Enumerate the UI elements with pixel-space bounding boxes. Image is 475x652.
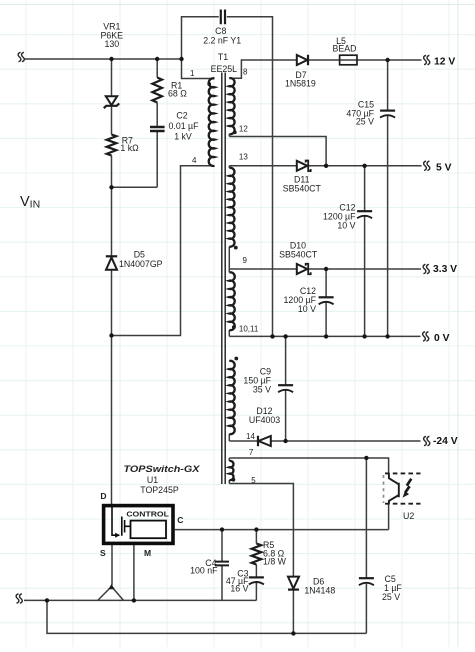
svg-text:U1: U1: [147, 475, 158, 485]
svg-text:10 V: 10 V: [298, 304, 316, 314]
svg-text:U2: U2: [403, 511, 414, 521]
svg-text:2.2 nF Y1: 2.2 nF Y1: [203, 36, 241, 46]
svg-text:68 Ω: 68 Ω: [168, 89, 187, 99]
svg-text:1 kΩ: 1 kΩ: [120, 143, 139, 153]
svg-text:8: 8: [243, 68, 248, 77]
svg-text:12: 12: [239, 125, 248, 134]
svg-text:1/8 W: 1/8 W: [263, 557, 287, 567]
svg-text:14: 14: [246, 432, 255, 441]
svg-text:EE25L: EE25L: [211, 64, 238, 74]
svg-text:CONTROL: CONTROL: [126, 510, 169, 519]
svg-text:25 V: 25 V: [356, 117, 374, 127]
svg-text:D: D: [100, 491, 106, 501]
svg-text:1 kV: 1 kV: [174, 132, 192, 142]
svg-text:13: 13: [239, 153, 248, 162]
svg-text:TOP245P: TOP245P: [140, 485, 179, 495]
svg-text:0.01 µF: 0.01 µF: [168, 121, 199, 131]
svg-text:SB540CT: SB540CT: [279, 250, 318, 260]
svg-text:C8: C8: [215, 26, 226, 36]
svg-text:BEAD: BEAD: [333, 43, 357, 53]
svg-text:3.3 V: 3.3 V: [433, 264, 457, 275]
svg-text:UF4003: UF4003: [249, 415, 280, 425]
svg-text:35 V: 35 V: [253, 385, 271, 395]
svg-text:1N4007GP: 1N4007GP: [119, 259, 163, 269]
svg-text:25 V: 25 V: [382, 592, 400, 602]
svg-text:16 V: 16 V: [230, 583, 248, 593]
svg-text:M: M: [144, 548, 151, 558]
svg-text:1: 1: [190, 69, 195, 78]
svg-text:9: 9: [243, 256, 248, 265]
svg-text:4: 4: [192, 156, 197, 165]
svg-text:12 V: 12 V: [434, 56, 455, 67]
svg-text:SB540CT: SB540CT: [283, 184, 322, 194]
svg-text:C: C: [177, 515, 183, 525]
svg-text:C2: C2: [176, 111, 187, 121]
svg-text:5 V: 5 V: [436, 162, 452, 173]
svg-text:0 V: 0 V: [434, 333, 450, 344]
svg-text:1N5819: 1N5819: [285, 79, 316, 89]
svg-text:1N4148: 1N4148: [304, 586, 335, 596]
svg-text:7: 7: [249, 448, 254, 457]
svg-text:TOPSwitch-GX: TOPSwitch-GX: [124, 464, 201, 474]
svg-text:100 nF: 100 nF: [190, 565, 218, 575]
svg-text:VIN: VIN: [20, 194, 40, 211]
svg-text:T1: T1: [218, 52, 228, 62]
svg-text:10,11: 10,11: [239, 325, 259, 334]
svg-text:S: S: [100, 548, 106, 558]
svg-text:130: 130: [104, 39, 119, 49]
svg-text:-24 V: -24 V: [433, 436, 458, 447]
svg-text:10 V: 10 V: [337, 221, 355, 231]
svg-text:5: 5: [251, 476, 256, 485]
